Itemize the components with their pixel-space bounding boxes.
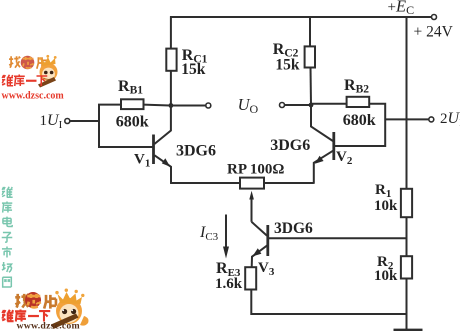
RP wiper arrow line [251, 197, 253, 222]
transistor V2 emitter [314, 151, 333, 184]
wire RC2 bottom to node [310, 67, 313, 105]
transistor V1 emitter [155, 155, 172, 184]
watermark top-left logo [2, 55, 65, 102]
wire RC2 top [309, 16, 311, 46]
terminal input 1UI [65, 119, 70, 124]
wire RB1 right to node [144, 104, 171, 107]
wire RB2 left from node [311, 103, 347, 105]
transistor V3 collector wire from RP wiper [252, 222, 267, 236]
transistor V1 base bar [152, 135, 155, 165]
current IC3 arrow [225, 215, 227, 251]
node A collector V1 [169, 103, 174, 108]
svg-text:www.dzsc.com: www.dzsc.com [2, 91, 65, 102]
wire output 2U tap [385, 118, 428, 120]
resistor RC2 [305, 46, 315, 67]
terminal supply EC [432, 15, 437, 20]
wire top supply rail [170, 16, 432, 18]
svg-text:www.dzsc.com: www.dzsc.com [17, 321, 80, 331]
wire RB1 left and down to base [99, 105, 153, 147]
transistor V1 collector [154, 106, 171, 145]
wire input 1UI [70, 120, 100, 122]
transistor V3 base wire to divider [269, 237, 407, 239]
transistor V2 collector [311, 105, 333, 141]
transistor V2 base bar [332, 132, 335, 160]
transistor V2 emitter arrow [315, 156, 324, 164]
wire RC1 bottom to node [170, 71, 172, 106]
watermark left edge vertical text [2, 187, 13, 287]
resistor RE3 [245, 267, 256, 289]
wire node to left output terminal [171, 105, 206, 107]
transistor V3 emitter arrow [253, 248, 262, 256]
resistor R2 [401, 256, 412, 278]
wire R1 bottom to junction [406, 217, 408, 256]
terminal right output [280, 103, 285, 108]
potentiometer RP body [240, 178, 264, 189]
wire RB2 right down to base [335, 104, 385, 146]
wire R2 bottom to bottom rail [406, 279, 408, 330]
wire right branch from rail down to R1 [406, 16, 408, 189]
transistor V3 base bar [266, 225, 269, 256]
wire RE3 bottom to rail [251, 290, 406, 315]
resistor R1 [401, 189, 412, 217]
terminal output 2U [429, 117, 434, 122]
resistor RB2 [347, 97, 370, 107]
resistor RC1 [166, 49, 176, 71]
transistor V3 emitter [252, 246, 267, 268]
RP wiper arrowhead [249, 191, 254, 200]
ground bar [394, 329, 423, 331]
resistor RB1 [121, 99, 144, 109]
watermark bottom-left logo [2, 289, 88, 331]
node B collector V2 [309, 103, 314, 108]
wire right terminal to node [285, 104, 311, 106]
node top-left corner R_C1 [170, 16, 172, 49]
transistor V1 emitter arrow [162, 158, 170, 167]
wire emitter rail V1 V2 [170, 182, 240, 184]
terminal left output [206, 103, 211, 108]
